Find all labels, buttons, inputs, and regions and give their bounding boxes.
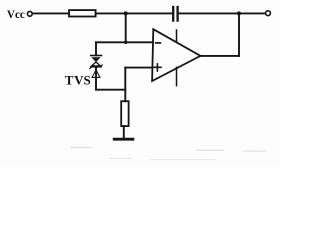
svg-text:Vcc: Vcc <box>7 9 25 21</box>
svg-text:TVS: TVS <box>65 73 91 88</box>
